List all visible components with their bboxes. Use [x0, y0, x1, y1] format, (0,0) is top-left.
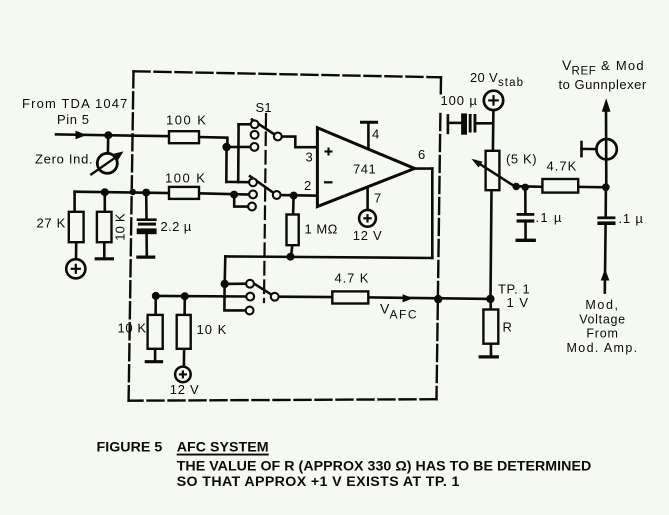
svg-text:S1: S1: [256, 100, 272, 115]
svg-text:6: 6: [418, 147, 425, 162]
svg-text:.1 µ: .1 µ: [536, 210, 563, 225]
svg-text:1 MΩ: 1 MΩ: [305, 222, 338, 237]
svg-text:2: 2: [304, 178, 311, 193]
svg-text:12 V: 12 V: [170, 382, 200, 397]
svg-text:12 V: 12 V: [353, 228, 383, 243]
svg-text:Zero Ind.: Zero Ind.: [35, 152, 93, 167]
svg-text:(5 K): (5 K): [506, 152, 537, 167]
svg-text:Pin 5: Pin 5: [57, 112, 90, 127]
svg-text:Mod. Amp.: Mod. Amp.: [567, 341, 639, 355]
svg-text:3: 3: [306, 150, 313, 165]
svg-text:THE VALUE OF R (APPROX 330 Ω): THE VALUE OF R (APPROX 330 Ω) HAS TO BE …: [177, 459, 592, 475]
svg-text:R: R: [503, 320, 513, 335]
svg-text:1 V: 1 V: [507, 295, 530, 310]
svg-text:100 K: 100 K: [165, 171, 206, 186]
svg-text:Mod,: Mod,: [585, 298, 619, 312]
svg-text:100 µ: 100 µ: [441, 93, 478, 108]
svg-text:7: 7: [374, 190, 381, 205]
svg-text:27 K: 27 K: [37, 216, 67, 231]
svg-text:10 K: 10 K: [113, 213, 128, 241]
svg-text:AFC SYSTEM: AFC SYSTEM: [177, 439, 269, 455]
svg-text:to Gunnplexer: to Gunnplexer: [559, 77, 647, 92]
svg-text:4.7 K: 4.7 K: [335, 271, 370, 286]
svg-text:4.7K: 4.7K: [547, 159, 578, 174]
svg-text:Voltage: Voltage: [579, 313, 626, 327]
svg-text:SO THAT APPROX +1 V EXISTS AT: SO THAT APPROX +1 V EXISTS AT TP. 1: [177, 474, 460, 490]
svg-text:2.2 µ: 2.2 µ: [161, 219, 192, 234]
svg-text:From: From: [586, 327, 618, 341]
svg-text:741: 741: [353, 162, 376, 177]
svg-text:10 K: 10 K: [197, 322, 228, 337]
svg-text:100 K: 100 K: [166, 113, 207, 128]
svg-text:10 K: 10 K: [118, 321, 147, 336]
svg-text:.1 µ: .1 µ: [619, 211, 644, 226]
svg-text:4: 4: [372, 126, 379, 141]
svg-text:From TDA 1047: From TDA 1047: [22, 96, 128, 111]
svg-text:FIGURE 5: FIGURE 5: [97, 439, 163, 455]
